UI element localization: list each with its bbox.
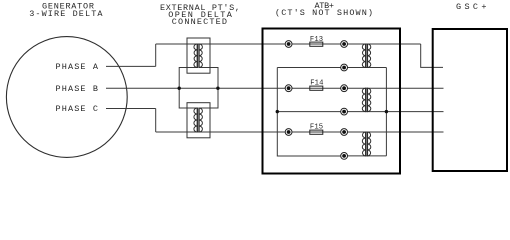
wire common left vertical <box>277 68 344 157</box>
terminal F13-3 <box>341 64 348 71</box>
PT2 box <box>187 103 210 138</box>
junction PT1-PT2 left on bus <box>178 87 181 90</box>
svg-text:F15: F15 <box>310 124 323 132</box>
wire PT2 right lead <box>200 88 218 108</box>
wire phase C / F15 row <box>156 131 444 133</box>
terminal F14-2 <box>341 85 348 92</box>
GSC+ box <box>433 29 507 171</box>
generator G1 <box>6 37 127 158</box>
svg-text:(CT'S NOT SHOWN): (CT'S NOT SHOWN) <box>275 8 373 18</box>
fuse F14 <box>310 86 323 90</box>
svg-text:CONNECTED: CONNECTED <box>172 17 227 27</box>
terminal F13-2 <box>341 41 348 48</box>
wire phase C horizontal <box>106 108 156 110</box>
svg-text:PHASE A: PHASE A <box>56 62 99 72</box>
svg-text:GSC+: GSC+ <box>456 2 487 12</box>
junction PT1-PT2 right on bus <box>216 87 219 90</box>
svg-text:PHASE B: PHASE B <box>56 84 99 94</box>
wire PT2 left lead <box>179 88 197 108</box>
terminal F15-2 <box>341 129 348 136</box>
label external pts <box>160 3 240 27</box>
label generator <box>29 2 103 20</box>
svg-text:3-WIRE DELTA: 3-WIRE DELTA <box>29 9 103 19</box>
svg-text:PHASE C: PHASE C <box>56 104 99 114</box>
wire common line to GSC+ <box>277 111 443 113</box>
wire phase B / F14 row <box>106 87 444 89</box>
wire T3 secondary bottom <box>344 155 386 157</box>
wire PT1 right lead <box>200 68 218 89</box>
wire PT1 left lead <box>179 68 197 89</box>
ATB+ box <box>263 29 401 174</box>
terminal F15-3 <box>341 153 348 160</box>
fuse F13 <box>310 42 323 46</box>
terminal F14-1 <box>285 85 292 92</box>
terminal F15-1 <box>285 129 292 136</box>
svg-text:F13: F13 <box>310 36 323 44</box>
wire phase A / F13 row <box>156 43 421 45</box>
terminal F14-3 <box>341 108 348 115</box>
label ATB+ <box>275 1 373 18</box>
wire F13 secondary bottom <box>277 67 386 69</box>
terminal F13-1 <box>285 41 292 48</box>
junction common right <box>385 110 388 113</box>
transformer T1 (F13 row) <box>362 44 371 69</box>
PT1 box <box>187 38 210 73</box>
wire phase A vertical riser <box>155 44 157 66</box>
transformer T3 (F15 row) <box>362 132 370 157</box>
junction common left <box>276 110 279 113</box>
wire jog down into GSC+ <box>421 44 443 67</box>
PT1 transformer windings <box>194 44 203 69</box>
wire right vertical <box>385 68 387 156</box>
fuse F15 <box>310 130 323 134</box>
wire phase C drop <box>155 109 157 133</box>
wire phase A horizontal <box>106 65 156 67</box>
transformer T2 (F14 row) <box>362 88 371 112</box>
PT2 transformer windings <box>194 108 203 133</box>
svg-text:F14: F14 <box>310 80 323 88</box>
